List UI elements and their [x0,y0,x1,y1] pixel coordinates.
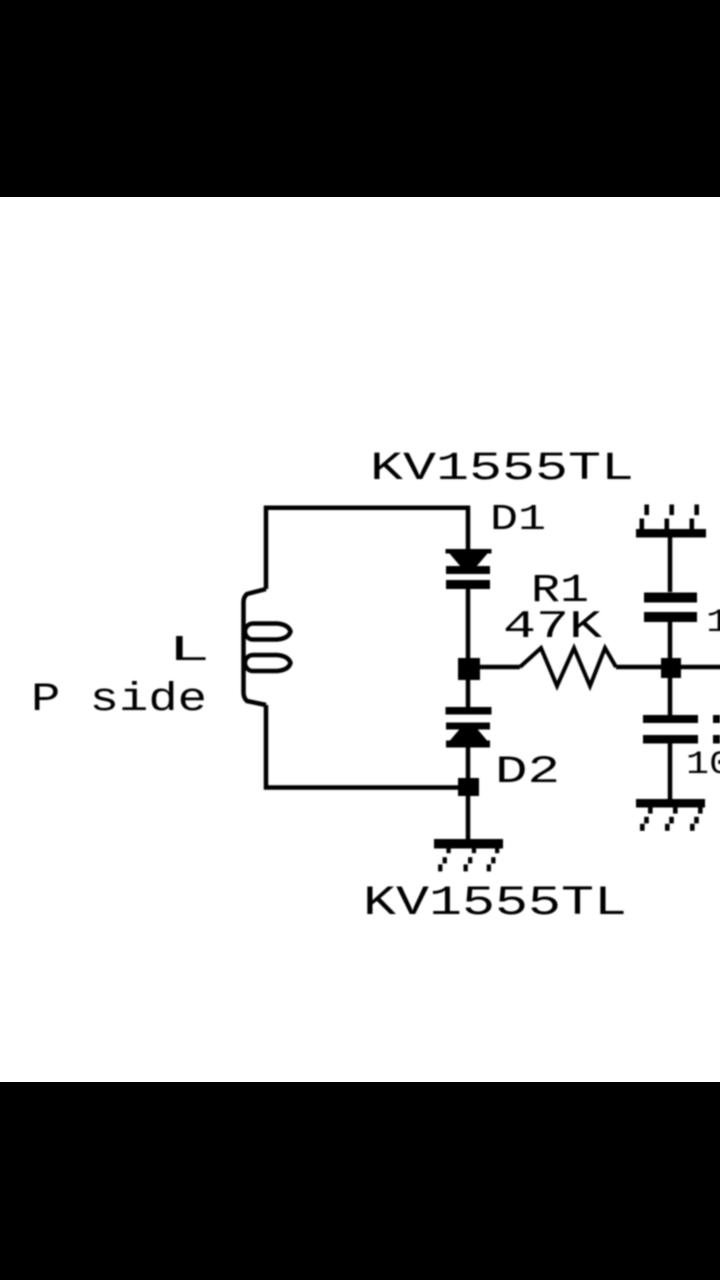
svg-text:P side: P side [31,678,207,723]
svg-text:L: L [168,630,210,671]
svg-text:KV1555TL: KV1555TL [363,879,627,927]
svg-text:KV1555TL: KV1555TL [370,447,634,492]
svg-text:D2: D2 [495,750,560,794]
svg-text:10: 10 [686,746,720,783]
svg-text:47K: 47K [503,605,603,649]
svg-text:1: 1 [706,604,720,641]
svg-text:D1: D1 [490,499,546,540]
